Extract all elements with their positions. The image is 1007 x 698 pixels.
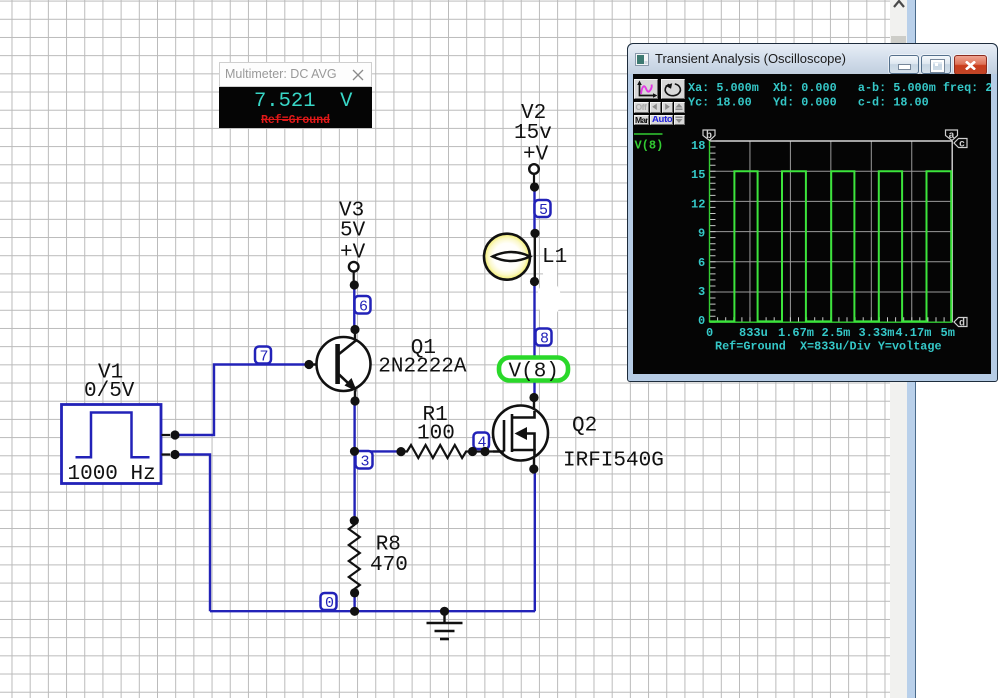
scope button arrow up <box>674 102 685 113</box>
probe tag V(8) <box>499 358 568 384</box>
svg-text:V(8): V(8) <box>509 361 559 384</box>
plot gridlines vertical <box>750 141 912 322</box>
window edge dark line <box>915 0 916 698</box>
transistor Q1 <box>309 330 371 402</box>
svg-text:5: 5 <box>539 202 548 219</box>
ground <box>427 611 463 639</box>
svg-text:d: d <box>959 318 965 330</box>
node 0 <box>321 593 337 612</box>
junction V1 pin2 <box>170 450 179 459</box>
scope maximize button <box>921 55 951 74</box>
svg-text:IRFI540G: IRFI540G <box>563 450 664 473</box>
svg-text:8: 8 <box>540 331 549 348</box>
scope button arrow right <box>662 102 673 113</box>
junction node 3 <box>350 447 359 456</box>
node 7 <box>255 347 271 366</box>
junction V3 pin <box>350 280 359 289</box>
svg-text:+V: +V <box>523 143 549 166</box>
wire ground bus <box>210 610 535 612</box>
junction lamp bottom <box>530 277 539 286</box>
wire V1 pin2 down to ground bus <box>175 455 210 612</box>
svg-text:6: 6 <box>359 299 368 316</box>
svg-text:18: 18 <box>691 139 705 153</box>
svg-text:V(8): V(8) <box>635 139 664 153</box>
marker c <box>954 139 967 151</box>
junction Q2 drain <box>529 393 538 402</box>
svg-text:7: 7 <box>260 349 269 366</box>
scope window icon <box>635 53 649 67</box>
multimeter close X <box>352 69 364 81</box>
svg-text:b: b <box>706 130 712 142</box>
trace V(8) <box>710 171 952 321</box>
marker a <box>946 130 958 142</box>
wire node 3 to R1 <box>355 450 401 452</box>
node 4 <box>474 433 490 452</box>
svg-text:4.17m: 4.17m <box>895 326 931 340</box>
scope button Off <box>634 102 649 113</box>
svg-text:3: 3 <box>361 454 370 471</box>
svg-text:c: c <box>959 140 965 151</box>
multimeter window <box>219 62 372 128</box>
svg-text:+V: +V <box>340 241 366 264</box>
svg-text:Xa: 5.000m Xb: 0.000 a-b: 5: Xa: 5.000m Xb: 0.000 a-b: 5.000m freq: 2 <box>688 81 991 95</box>
svg-text:a: a <box>949 131 955 142</box>
svg-text:833u: 833u <box>739 326 768 340</box>
wire V3 to Q1 collector <box>353 285 355 330</box>
plot border right <box>951 141 953 322</box>
marker b <box>703 130 715 142</box>
junction R8 bottom <box>350 588 359 597</box>
svg-text:9: 9 <box>698 227 705 241</box>
svg-text:L1: L1 <box>542 246 567 269</box>
scrollbar strip <box>890 0 907 698</box>
svg-text:6: 6 <box>698 256 705 270</box>
scope toolbar button waveform <box>634 79 658 99</box>
plot border top <box>710 140 953 142</box>
svg-text:15v: 15v <box>514 122 552 145</box>
wire Q1 emitter to node 3 to R8 <box>353 401 355 521</box>
junction ground <box>440 607 449 616</box>
svg-text:0: 0 <box>706 326 713 340</box>
svg-text:0: 0 <box>325 595 334 612</box>
node 8 <box>536 329 552 348</box>
svg-text:100: 100 <box>417 423 455 446</box>
svg-text:3: 3 <box>698 285 705 299</box>
wire Q2 source down to bus <box>534 469 536 611</box>
junction V1 pin1 <box>170 430 179 439</box>
svg-text:12: 12 <box>691 197 705 211</box>
wire V2 to lamp <box>533 187 535 233</box>
node 3 <box>356 451 373 471</box>
window edge blue strip <box>907 0 915 698</box>
mosfet Q2 <box>493 398 548 470</box>
junction Q2 source <box>529 464 538 473</box>
scope toolbar button refresh <box>661 79 685 99</box>
junction R8 top <box>350 516 359 525</box>
junction Q1 base <box>304 360 313 369</box>
svg-text:Ref=Ground X=833u/Div Y=volta: Ref=Ground X=833u/Div Y=voltage <box>715 340 942 354</box>
wire R8 to ground bus <box>353 593 355 611</box>
svg-text:3.33m: 3.33m <box>859 326 895 340</box>
lamp L1 <box>484 231 535 283</box>
white smudge artifact <box>537 262 561 329</box>
oscilloscope window <box>627 43 998 382</box>
junction R1 right <box>468 447 477 456</box>
svg-text:1000 Hz: 1000 Hz <box>68 463 156 486</box>
plot x axis green <box>710 321 953 323</box>
scope button Auto <box>650 115 673 126</box>
scope button Man <box>634 115 649 126</box>
junction bus R8 <box>350 607 359 616</box>
svg-text:Yc: 18.00 Yd: 0.000 c-d: 1: Yc: 18.00 Yd: 0.000 c-d: 18.00 <box>688 96 929 110</box>
node 5 <box>535 200 551 219</box>
scope button arrow down <box>674 115 685 126</box>
node 6 <box>355 296 371 316</box>
plot gridlines horizontal <box>710 171 953 292</box>
junction Q2 gate <box>480 447 489 456</box>
junction R1 left <box>396 447 405 456</box>
wire V1 pin1 to Q1 base <box>175 365 309 436</box>
svg-text:0: 0 <box>698 314 705 328</box>
resistor R1 <box>401 445 493 458</box>
junction Q1 collector <box>350 325 359 334</box>
marker d <box>954 318 967 330</box>
plot y-axis minor ticks <box>710 141 716 322</box>
multimeter reading <box>254 90 352 113</box>
junction lamp top <box>530 229 539 238</box>
svg-text:5m: 5m <box>941 326 955 340</box>
power +V symbol V2 <box>529 164 539 187</box>
svg-text:1.67m: 1.67m <box>778 326 814 340</box>
svg-text:2.5m: 2.5m <box>822 326 851 340</box>
multimeter ref label <box>219 114 372 127</box>
junction V2 pin <box>530 182 539 191</box>
resistor R8 <box>349 521 360 593</box>
junction Q1 emitter <box>350 396 359 405</box>
voltage source V1 <box>62 405 171 486</box>
scrollbar thumb top <box>891 36 906 44</box>
scope button arrow left <box>650 102 661 113</box>
svg-text:5V: 5V <box>340 220 366 243</box>
svg-text:15: 15 <box>691 168 705 182</box>
svg-text:2N2222A: 2N2222A <box>378 356 467 379</box>
wire node 8 lamp to Q2 drain <box>533 282 535 398</box>
plot y axis green <box>709 141 711 322</box>
scrollbar up arrow <box>893 0 905 8</box>
scope legend V(8) <box>634 134 663 153</box>
svg-text:470: 470 <box>370 554 408 577</box>
scope minimize button <box>889 55 919 74</box>
svg-text:0/5V: 0/5V <box>84 380 135 403</box>
svg-text:Q2: Q2 <box>572 415 597 438</box>
plot x-axis minor ticks <box>710 317 953 322</box>
scope close button <box>954 55 987 75</box>
power +V symbol V3 <box>349 262 359 285</box>
